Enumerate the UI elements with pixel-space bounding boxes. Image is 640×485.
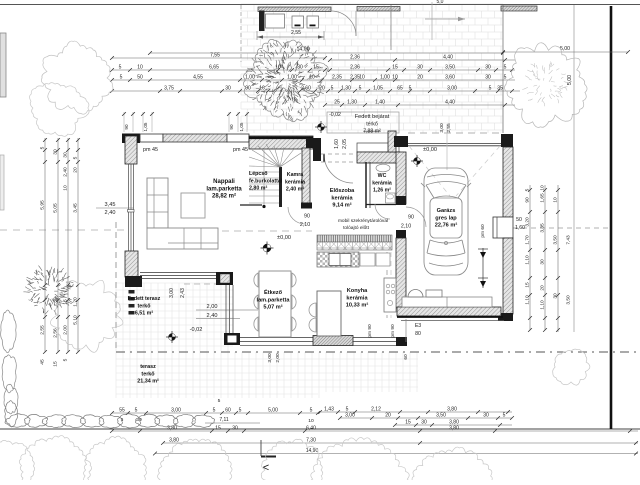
svg-text:2,56: 2,56 (53, 328, 59, 338)
svg-text:5: 5 (504, 75, 507, 81)
svg-text:1,60: 1,60 (334, 139, 340, 149)
svg-text:30: 30 (417, 65, 423, 71)
svg-text:3,00: 3,00 (169, 288, 175, 298)
svg-text:30: 30 (485, 65, 491, 71)
svg-text:5,0: 5,0 (437, 0, 444, 5)
svg-text:30: 30 (225, 86, 231, 92)
svg-text:5,10: 5,10 (73, 315, 79, 325)
svg-text:1,70: 1,70 (525, 235, 531, 245)
svg-text:3,45: 3,45 (73, 203, 79, 213)
svg-text:30: 30 (485, 75, 491, 81)
svg-text:gres lap: gres lap (435, 215, 457, 221)
svg-text:2,00: 2,00 (63, 325, 69, 335)
svg-text:5,07 m²: 5,07 m² (263, 304, 282, 311)
svg-text:20: 20 (417, 75, 423, 81)
svg-text:Garázs: Garázs (437, 208, 456, 214)
svg-text:térkő: térkő (366, 122, 378, 128)
svg-text:14,90: 14,90 (306, 448, 319, 454)
svg-text:2,00: 2,00 (207, 304, 218, 310)
svg-text:10: 10 (392, 75, 398, 81)
svg-text:3,80: 3,80 (447, 407, 457, 413)
svg-text:4,40: 4,40 (445, 100, 455, 106)
svg-text:22,76 m²: 22,76 m² (435, 222, 458, 229)
svg-text:1,30: 1,30 (341, 86, 351, 92)
svg-text:Előszoba: Előszoba (330, 188, 355, 194)
svg-text:4,55: 4,55 (193, 75, 203, 81)
svg-text:15: 15 (405, 420, 411, 426)
svg-text:30: 30 (483, 413, 489, 419)
svg-text:2,10: 2,10 (300, 222, 310, 228)
svg-text:15: 15 (313, 65, 319, 71)
svg-text:-0,02: -0,02 (329, 112, 341, 118)
svg-text:3,00: 3,00 (267, 353, 273, 363)
svg-text:2,12: 2,12 (371, 407, 381, 413)
svg-text:2,40: 2,40 (63, 167, 69, 177)
svg-text:10: 10 (308, 418, 314, 424)
svg-text:±0,00: ±0,00 (277, 235, 291, 241)
svg-text:terasz: terasz (140, 364, 156, 370)
svg-text:1,20: 1,20 (73, 297, 79, 307)
svg-text:fe.burkolattal: fe.burkolattal (249, 178, 283, 184)
svg-text:5,00: 5,00 (567, 75, 573, 85)
svg-text:terkő: terkő (141, 371, 155, 377)
svg-text:tolóajtó előtt: tolóajtó előtt (343, 225, 370, 231)
svg-text:3,00: 3,00 (447, 86, 457, 92)
svg-text:3,50: 3,50 (436, 413, 446, 419)
svg-text:90: 90 (124, 124, 129, 130)
svg-text:15: 15 (215, 426, 221, 432)
svg-text:3,45: 3,45 (105, 202, 116, 208)
svg-text:50: 50 (137, 75, 143, 81)
svg-text:2,55: 2,55 (446, 123, 452, 133)
svg-text:5: 5 (120, 75, 123, 81)
svg-text:30: 30 (63, 152, 69, 158)
svg-text:60: 60 (403, 354, 409, 360)
svg-text:terkő: terkő (138, 303, 152, 309)
svg-text:2,36: 2,36 (350, 65, 360, 71)
svg-text:pm 60: pm 60 (480, 224, 486, 238)
svg-text:90: 90 (229, 124, 234, 130)
svg-text:1,05: 1,05 (239, 122, 244, 131)
svg-text:3,80: 3,80 (169, 438, 179, 444)
svg-text:7,43: 7,43 (566, 235, 572, 245)
svg-text:5: 5 (73, 156, 79, 159)
svg-text:2,00: 2,00 (275, 353, 281, 363)
svg-text:21,34 m²: 21,34 m² (137, 379, 159, 385)
svg-text:30: 30 (540, 259, 546, 265)
svg-text:2,55: 2,55 (291, 30, 301, 36)
svg-text:1,10: 1,10 (540, 300, 546, 310)
svg-text:20: 20 (385, 413, 391, 419)
svg-text:2,55: 2,55 (40, 325, 46, 335)
svg-text:5: 5 (119, 65, 122, 71)
svg-text:50: 50 (516, 217, 522, 223)
svg-text:3,50: 3,50 (553, 235, 559, 245)
svg-text:10: 10 (63, 185, 69, 191)
svg-text:30: 30 (232, 426, 238, 432)
svg-text:3,00: 3,00 (345, 413, 355, 419)
svg-text:3,75: 3,75 (164, 86, 174, 92)
svg-text:Nappali: Nappali (213, 179, 235, 185)
svg-text:90: 90 (245, 86, 251, 92)
svg-text:3,80: 3,80 (449, 426, 459, 432)
svg-text:2,80 m²: 2,80 m² (249, 186, 267, 192)
svg-text:1,60: 1,60 (515, 225, 525, 231)
svg-text:5: 5 (135, 408, 138, 414)
svg-text:30: 30 (297, 65, 303, 71)
svg-text:5: 5 (213, 408, 216, 414)
svg-text:1,05: 1,05 (373, 86, 383, 92)
svg-text:5: 5 (504, 65, 507, 71)
svg-text:10,33 m²: 10,33 m² (346, 302, 369, 309)
svg-text:1,00: 1,00 (245, 75, 255, 81)
svg-text:10: 10 (309, 75, 315, 81)
svg-text:20: 20 (73, 167, 79, 173)
svg-text:1,05: 1,05 (143, 122, 148, 131)
svg-text:5: 5 (489, 86, 492, 92)
svg-text:<: < (263, 462, 269, 474)
svg-text:lam.parketta: lam.parketta (206, 186, 242, 192)
svg-text:55: 55 (119, 408, 125, 414)
svg-text:WC: WC (378, 173, 387, 179)
svg-text:45: 45 (40, 359, 46, 365)
svg-text:2,36: 2,36 (350, 55, 360, 61)
svg-text:90: 90 (408, 215, 414, 221)
svg-text:1,40: 1,40 (375, 100, 385, 106)
svg-text:7,11: 7,11 (219, 417, 229, 423)
svg-text:Konyha: Konyha (347, 288, 368, 294)
svg-text:90: 90 (525, 197, 531, 203)
svg-text:kerámia: kerámia (331, 195, 353, 201)
svg-text:2,35: 2,35 (350, 75, 360, 81)
svg-text:6,51 m²: 6,51 m² (135, 311, 153, 317)
svg-text:3,50: 3,50 (445, 65, 455, 71)
svg-text:7,30: 7,30 (306, 438, 316, 444)
svg-text:2,35: 2,35 (332, 75, 342, 81)
svg-text:9,14 m²: 9,14 m² (332, 202, 351, 209)
svg-text:E3: E3 (415, 323, 421, 329)
svg-text:60: 60 (225, 408, 231, 414)
svg-text:pm 45: pm 45 (233, 147, 248, 153)
svg-text:lam.parketta: lam.parketta (257, 297, 291, 303)
svg-text:2,43: 2,43 (180, 288, 186, 298)
svg-text:Étkező: Étkező (264, 288, 283, 296)
svg-text:5,95: 5,95 (40, 200, 46, 210)
svg-text:kerámia: kerámia (372, 180, 392, 186)
svg-text:1,26 m²: 1,26 m² (373, 188, 391, 194)
svg-text:3,50: 3,50 (566, 295, 572, 305)
svg-text:35: 35 (497, 86, 503, 92)
svg-text:6,65: 6,65 (209, 65, 219, 71)
svg-text:1,43: 1,43 (324, 407, 334, 413)
svg-text:30: 30 (421, 420, 427, 426)
svg-text:7,88 m²: 7,88 m² (363, 129, 381, 135)
svg-text:5: 5 (239, 408, 242, 414)
svg-text:2,40 m²: 2,40 m² (286, 187, 304, 193)
svg-text:5: 5 (310, 408, 313, 414)
svg-text:5: 5 (218, 398, 221, 404)
svg-text:5,00: 5,00 (268, 408, 278, 414)
svg-text:5: 5 (409, 86, 412, 92)
svg-text:25: 25 (334, 100, 340, 106)
svg-text:mobil szekrénytárolóval: mobil szekrénytárolóval (338, 218, 388, 224)
svg-text:3,20: 3,20 (525, 217, 531, 227)
svg-text:pm 90: pm 90 (390, 324, 396, 338)
svg-text:Fedett terasz: Fedett terasz (128, 296, 161, 302)
svg-text:5: 5 (331, 86, 334, 92)
svg-text:pm 90: pm 90 (367, 324, 373, 338)
svg-text:Fedett bejárat: Fedett bejárat (355, 114, 390, 120)
svg-text:kerámia: kerámia (285, 179, 305, 185)
svg-text:Lépcső: Lépcső (249, 171, 268, 177)
svg-text:3,00: 3,00 (439, 123, 445, 133)
svg-text:kerámia: kerámia (346, 295, 368, 301)
svg-text:15: 15 (525, 282, 531, 288)
svg-text:28,82 m²: 28,82 m² (212, 193, 236, 200)
svg-text:1,00: 1,00 (380, 75, 390, 81)
svg-text:±0,00: ±0,00 (423, 147, 437, 153)
svg-text:15: 15 (53, 361, 59, 367)
svg-text:3,60: 3,60 (445, 75, 455, 81)
svg-text:-0,02: -0,02 (190, 327, 203, 333)
svg-text:15: 15 (392, 65, 398, 71)
svg-text:5,05: 5,05 (53, 203, 59, 213)
svg-text:20: 20 (540, 285, 546, 291)
svg-text:5: 5 (503, 413, 506, 419)
svg-text:3,35: 3,35 (540, 223, 546, 233)
svg-text:10: 10 (137, 65, 143, 71)
svg-text:5: 5 (359, 86, 362, 92)
svg-text:90: 90 (304, 214, 310, 220)
svg-text:1,65: 1,65 (540, 193, 546, 203)
svg-text:5: 5 (63, 358, 69, 361)
svg-text:pm 45: pm 45 (143, 147, 158, 153)
svg-text:4,40: 4,40 (443, 55, 453, 61)
svg-text:2,05: 2,05 (342, 139, 348, 149)
svg-text:6,40: 6,40 (306, 426, 316, 432)
svg-text:2,40: 2,40 (207, 313, 218, 319)
svg-text:80: 80 (415, 331, 421, 337)
svg-text:2,10: 2,10 (401, 224, 411, 230)
svg-text:5: 5 (40, 146, 46, 149)
svg-text:2,40: 2,40 (105, 210, 116, 216)
svg-text:10: 10 (540, 185, 546, 191)
svg-text:Kamra: Kamra (287, 172, 304, 178)
svg-text:65: 65 (397, 86, 403, 92)
svg-text:1,10: 1,10 (525, 295, 531, 305)
svg-text:10: 10 (553, 197, 559, 203)
svg-text:1,30: 1,30 (347, 100, 357, 106)
svg-text:3,00: 3,00 (171, 408, 181, 414)
svg-text:10: 10 (359, 75, 365, 81)
svg-text:1,10: 1,10 (525, 255, 531, 265)
svg-text:7,55: 7,55 (210, 53, 220, 59)
